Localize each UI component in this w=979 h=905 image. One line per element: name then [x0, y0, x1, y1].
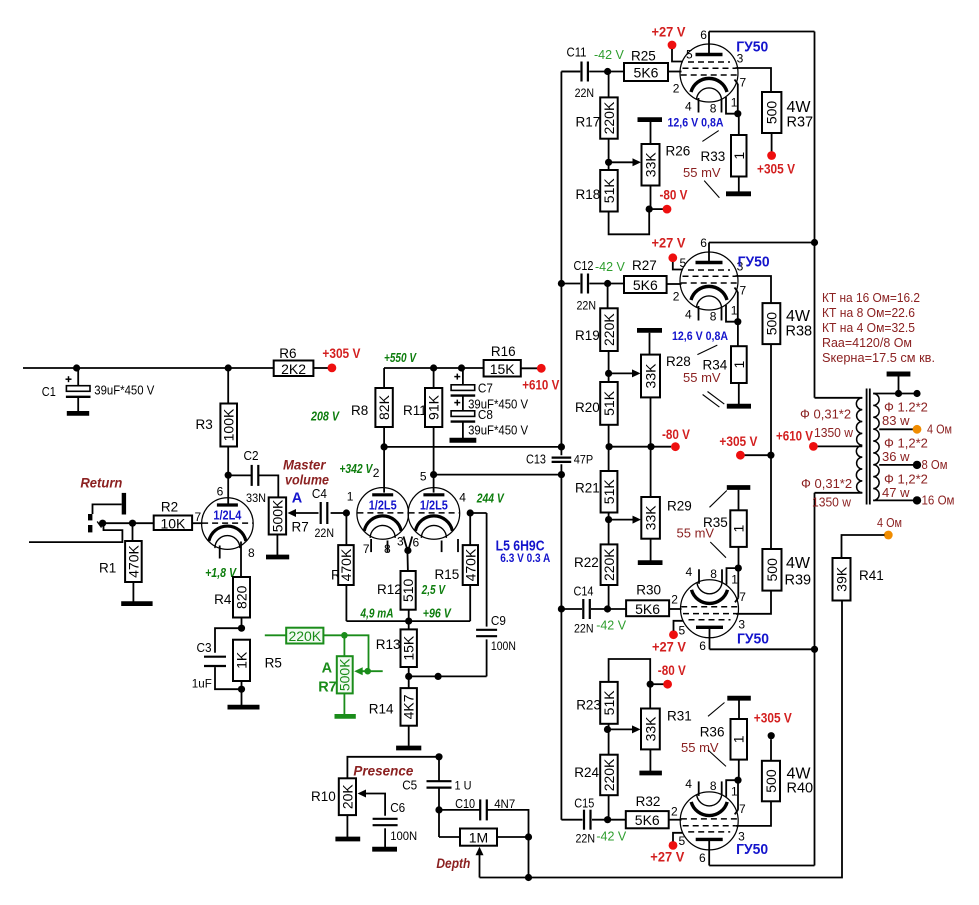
svg-text:1K: 1K	[234, 651, 250, 669]
node -80 V A	[663, 205, 672, 214]
svg-text:7: 7	[740, 76, 747, 90]
label -42 V D	[596, 830, 627, 844]
ground above R35	[727, 488, 751, 511]
label secondary gauge 2	[884, 436, 928, 451]
wire R14 to ground	[408, 726, 410, 746]
label -42 V A	[594, 48, 625, 62]
resistor R25	[624, 63, 668, 81]
svg-text:2: 2	[373, 466, 380, 480]
svg-text:-42 V: -42 V	[596, 619, 627, 633]
capacitor C10	[480, 799, 487, 820]
wire R24 to C15 row	[608, 795, 610, 820]
svg-text:4: 4	[685, 308, 692, 322]
svg-text:R16: R16	[491, 344, 516, 359]
wire pin3 D to R40	[736, 801, 771, 826]
svg-text:R24: R24	[574, 765, 599, 780]
label pin 8 V2a	[384, 542, 391, 556]
pin labels GU50 B	[673, 236, 747, 324]
svg-text:1: 1	[731, 524, 747, 532]
resistor potentiometer R29	[641, 497, 660, 539]
svg-text:820: 820	[234, 585, 250, 609]
svg-text:5: 5	[686, 48, 693, 62]
label A green	[322, 661, 333, 677]
label 22N D	[576, 832, 596, 846]
wire R4 to cathode node	[238, 618, 245, 632]
svg-text:91K: 91K	[426, 394, 442, 420]
label pin 7 V2a	[363, 542, 370, 556]
label C10	[455, 797, 475, 811]
label R11	[403, 403, 427, 418]
wire pin3 B to R38	[736, 276, 772, 303]
node +27 V D	[669, 841, 678, 850]
svg-text:-80 V: -80 V	[660, 186, 689, 202]
label C13 value 47P	[574, 452, 594, 466]
svg-text:1: 1	[731, 304, 738, 318]
jack tip tick	[97, 522, 101, 528]
svg-text:6.3 V 0.3 A: 6.3 V 0.3 A	[500, 553, 550, 565]
wire master pot to ground	[276, 535, 278, 556]
svg-text:R29: R29	[667, 498, 692, 513]
label +27 V A	[652, 24, 687, 40]
svg-text:ГУ50: ГУ50	[736, 39, 768, 56]
resistor potentiometer R7 green 500K	[337, 656, 353, 693]
resistor R38	[763, 303, 781, 344]
svg-text:3: 3	[738, 617, 745, 631]
leader line D2	[708, 750, 726, 766]
label Return	[80, 475, 122, 491]
svg-text:500: 500	[763, 312, 779, 336]
label +27 V D	[650, 848, 685, 864]
wire -80V row B	[609, 446, 671, 448]
wire V1 cathode to R4	[240, 542, 242, 578]
capacitor C6	[373, 819, 398, 825]
resistor R16	[484, 360, 521, 377]
label C3	[197, 641, 212, 655]
svg-text:5: 5	[420, 469, 427, 483]
wire R34 to ground	[738, 383, 740, 404]
wire V2a anode to bus	[381, 427, 566, 493]
label C8	[478, 408, 493, 422]
label pin 5 C	[679, 623, 686, 637]
ground under R29	[638, 560, 663, 565]
wire C9 branch	[470, 513, 486, 627]
wire R6 to +305V	[313, 367, 329, 369]
wire signal bus lower	[558, 464, 565, 820]
resistor R39	[762, 549, 781, 591]
svg-text:2K2: 2K2	[281, 361, 306, 377]
wire R29 to ground	[650, 539, 652, 561]
wiper R10	[358, 790, 386, 816]
label +305 V D	[754, 709, 793, 725]
resistor R40	[762, 761, 780, 802]
resistor potentiometer R28	[641, 355, 660, 398]
resistor potentiometer R31	[641, 709, 660, 750]
pin labels GU50 D	[671, 777, 746, 865]
wire C2 to master pot	[258, 475, 278, 497]
svg-text:1: 1	[731, 360, 747, 368]
label C9	[491, 614, 506, 628]
wire R20 to -80V row	[606, 425, 613, 451]
resistor R6	[274, 361, 314, 377]
svg-text:16 Ом: 16 Ом	[922, 493, 955, 508]
pentode GU50 C	[681, 565, 742, 638]
wire R19 lead	[607, 284, 609, 309]
wire R40 to +305V node	[770, 739, 772, 761]
capacitor C7	[451, 374, 476, 396]
label R24	[574, 765, 599, 780]
svg-text:33K: 33K	[643, 363, 659, 389]
label secondary turns 2	[882, 449, 910, 464]
ground under R1	[121, 601, 152, 606]
wire tap 8 Ohm	[879, 464, 913, 466]
wire R33 to ground	[738, 177, 740, 192]
svg-text:220K: 220K	[601, 758, 617, 791]
wire R17 lead	[608, 72, 610, 98]
svg-text:Sкерна=17.5 см кв.: Sкерна=17.5 см кв.	[822, 351, 935, 365]
wire C12 row	[561, 280, 624, 287]
wire R18 loop to -80V	[609, 209, 650, 234]
label C5	[402, 778, 417, 792]
svg-text:1350 w: 1350 w	[814, 425, 854, 440]
svg-text:R23: R23	[576, 698, 601, 713]
label pin 1 V2a	[347, 489, 354, 503]
svg-text:7: 7	[363, 542, 370, 556]
svg-text:5K6: 5K6	[635, 812, 660, 828]
svg-text:+342 V: +342 V	[339, 461, 373, 476]
wire tap 16 Ohm	[873, 499, 913, 501]
label primary turns 1	[814, 425, 854, 440]
capacitor C11	[582, 62, 588, 82]
svg-text:C4: C4	[312, 487, 327, 501]
svg-text:+27 V: +27 V	[650, 848, 685, 864]
label C11	[567, 46, 587, 60]
ground under R14	[396, 746, 421, 751]
resistor R22	[601, 544, 618, 585]
wire C5 top lead	[438, 757, 440, 781]
label +342 V	[339, 461, 373, 476]
pentode GU50 D	[680, 777, 741, 850]
label R32	[636, 794, 661, 809]
label C14	[574, 585, 594, 599]
label KT line 2	[822, 306, 915, 320]
label GU50 B	[738, 254, 770, 271]
wiper green pot	[354, 667, 383, 675]
label 4 Ohm	[927, 422, 952, 437]
svg-text:5: 5	[680, 256, 687, 270]
svg-text:C12: C12	[574, 259, 594, 273]
svg-text:+305 V: +305 V	[322, 345, 361, 361]
svg-text:500: 500	[763, 769, 779, 793]
label 4,9 mA	[360, 606, 394, 621]
svg-text:R14: R14	[369, 702, 394, 717]
svg-text:-80 V: -80 V	[658, 662, 687, 678]
svg-text:R26: R26	[666, 143, 691, 158]
node +610 V center tap	[809, 442, 818, 451]
resistor R17	[600, 97, 618, 138]
label R5	[265, 655, 282, 670]
svg-text:8: 8	[248, 546, 255, 560]
svg-text:R12: R12	[377, 582, 402, 597]
svg-text:+27 V: +27 V	[652, 235, 687, 251]
wire R3 to V1 anode	[225, 447, 232, 505]
svg-text:4W: 4W	[786, 555, 811, 572]
resistor R18	[600, 170, 618, 212]
capacitor C1	[66, 368, 91, 411]
label 4W R39	[785, 555, 812, 589]
resistor R24	[600, 755, 618, 796]
svg-text:2: 2	[671, 804, 678, 818]
svg-text:1/2L5: 1/2L5	[420, 497, 448, 512]
svg-text:5K6: 5K6	[633, 277, 658, 293]
svg-text:-42 V: -42 V	[595, 260, 626, 274]
ground under C6	[372, 847, 397, 852]
svg-text:1350 w: 1350 w	[812, 495, 852, 510]
svg-text:22N: 22N	[576, 832, 596, 846]
capacitor C9	[476, 630, 497, 636]
svg-text:Ф 0,31*2: Ф 0,31*2	[801, 476, 852, 491]
svg-text:2: 2	[673, 82, 680, 96]
svg-text:51K: 51K	[601, 690, 617, 716]
label R4	[214, 592, 232, 607]
svg-text:R38: R38	[786, 324, 813, 340]
wire V2 cathodes junction	[404, 537, 413, 572]
svg-text:1uF: 1uF	[192, 676, 212, 690]
jack sleeve contact	[122, 493, 126, 515]
svg-text:-80 V: -80 V	[662, 426, 691, 442]
label -80 V A	[660, 186, 689, 202]
svg-text:R5: R5	[265, 655, 282, 670]
label secondary gauge 3	[884, 472, 928, 487]
resistor R2	[154, 515, 192, 531]
svg-text:C13: C13	[526, 452, 546, 466]
label R10	[311, 789, 336, 804]
label pin 5 V2b	[420, 469, 427, 483]
svg-text:500K: 500K	[269, 499, 285, 532]
label C7	[478, 382, 493, 396]
wire +27V to pin5 C	[674, 621, 684, 631]
svg-text:1: 1	[731, 96, 738, 110]
svg-text:ГУ50: ГУ50	[738, 254, 770, 271]
capacitor C14	[583, 599, 590, 619]
transformer core	[867, 389, 870, 505]
wire C10 right lead	[487, 810, 532, 881]
svg-text:R1: R1	[99, 561, 116, 576]
wire secondary top to ground	[873, 377, 920, 398]
leader line D1	[708, 703, 725, 717]
label C2 value 33N	[246, 491, 266, 505]
wire C7 top lead	[462, 368, 464, 385]
ground under master pot	[266, 555, 289, 560]
svg-text:3: 3	[397, 535, 404, 549]
svg-text:КТ на 16 Ом=16.2: КТ на 16 Ом=16.2	[822, 291, 920, 305]
svg-text:33N: 33N	[246, 491, 266, 505]
svg-text:244 V: 244 V	[476, 491, 505, 506]
resistor R32	[626, 811, 669, 828]
svg-text:R21: R21	[575, 481, 600, 496]
svg-text:10K: 10K	[160, 515, 186, 531]
svg-text:1: 1	[347, 489, 354, 503]
resistor R13	[401, 629, 417, 667]
svg-text:R7: R7	[318, 679, 337, 695]
label secondary turns 3	[882, 485, 910, 500]
svg-text:C6: C6	[390, 801, 405, 815]
wire R8 top lead	[383, 368, 385, 388]
label R29	[667, 498, 692, 513]
label R2	[161, 500, 178, 515]
wire C15 row	[561, 816, 625, 823]
svg-text:R22: R22	[574, 555, 599, 570]
label C1	[42, 385, 56, 399]
svg-text:5K6: 5K6	[634, 65, 659, 81]
wire R34 top lead	[737, 325, 739, 347]
capacitor C2	[252, 465, 259, 486]
label 22N A	[575, 86, 595, 100]
label R14	[369, 702, 394, 717]
svg-text:39K: 39K	[834, 566, 850, 592]
label +305 V A	[757, 161, 796, 177]
ground above R36	[727, 698, 751, 719]
svg-text:R3: R3	[196, 417, 213, 432]
node 4 Ohm tap	[913, 425, 922, 434]
wire C2 left lead	[228, 474, 252, 476]
wire R3 top lead	[227, 368, 229, 404]
svg-text:R31: R31	[667, 708, 692, 723]
wire C11 row	[561, 68, 624, 75]
svg-text:6: 6	[699, 639, 706, 653]
resistor R3	[220, 404, 237, 447]
label R22	[574, 555, 599, 570]
ground under C1	[67, 411, 89, 416]
label R34	[703, 357, 728, 372]
wire jack link	[93, 504, 122, 514]
label C8 value	[468, 424, 529, 438]
label C2	[244, 449, 259, 463]
capacitor C8	[451, 400, 476, 422]
label C5 value 1U	[455, 779, 472, 793]
wire R21-R22 junction	[605, 513, 612, 545]
svg-text:51K: 51K	[601, 390, 617, 416]
ground under R31	[639, 771, 662, 776]
svg-text:R2: R2	[161, 500, 178, 515]
capacitor C4	[321, 502, 328, 524]
svg-text:R39: R39	[785, 573, 812, 589]
wire pin6 B	[709, 243, 815, 263]
leader line C2	[710, 542, 726, 558]
node +305 V D	[768, 732, 775, 739]
svg-text:47P: 47P	[574, 452, 594, 466]
label C4	[312, 487, 327, 501]
label 244 V	[476, 491, 505, 506]
leader line A2	[704, 181, 719, 198]
wire R35 to pin1 node C	[738, 547, 740, 568]
svg-text:1: 1	[731, 152, 747, 160]
svg-text:208 V: 208 V	[310, 409, 340, 424]
label 16 Ohm	[922, 493, 955, 508]
pentode GU50 B	[680, 252, 741, 325]
svg-text:47 w: 47 w	[882, 485, 910, 500]
label Depth	[436, 855, 470, 871]
resistor R23	[600, 682, 618, 724]
svg-text:55 mV: 55 mV	[681, 740, 719, 755]
label R35	[703, 515, 728, 530]
svg-text:1M: 1M	[469, 830, 488, 846]
wire pin3 A to R37	[736, 68, 772, 92]
wire cathode rail	[346, 585, 470, 625]
svg-text:C9: C9	[491, 614, 506, 628]
svg-text:33K: 33K	[643, 152, 659, 178]
ground green	[335, 714, 356, 719]
wire R5 to ground	[238, 681, 245, 705]
svg-text:6: 6	[699, 851, 706, 865]
wiper master volume pot	[288, 509, 319, 517]
label pin 6 V2b	[413, 536, 420, 550]
node -80 V B	[671, 442, 680, 451]
svg-text:4: 4	[685, 100, 692, 114]
label -42 V B	[595, 260, 626, 274]
label 22N C	[574, 622, 594, 636]
svg-text:22N: 22N	[574, 622, 594, 636]
label R3	[196, 417, 213, 432]
wire presence row	[347, 753, 442, 778]
label 55 mV A	[683, 165, 721, 180]
svg-text:4 Ом: 4 Ом	[877, 515, 902, 530]
svg-text:500: 500	[764, 101, 780, 125]
label primary wire gauge 2	[801, 476, 852, 491]
ground above R28	[637, 330, 662, 354]
wire green to pot	[323, 632, 368, 671]
label pin 5 A	[686, 48, 693, 62]
svg-text:R17: R17	[576, 115, 601, 130]
resistor R19	[600, 308, 618, 351]
label +550 V	[384, 350, 417, 365]
wire feedback row	[480, 601, 843, 878]
capacitor C15	[584, 810, 591, 830]
resistor R20	[600, 382, 618, 425]
svg-text:4 Ом: 4 Ом	[927, 422, 952, 437]
label 22N B	[577, 299, 597, 313]
label pin 5 B	[680, 256, 687, 270]
resistor R1	[125, 541, 142, 582]
svg-text:5: 5	[679, 834, 686, 848]
node +610 V supply	[537, 364, 546, 373]
svg-text:R18: R18	[576, 187, 601, 202]
svg-text:R32: R32	[636, 794, 661, 809]
label Master volume	[283, 457, 329, 488]
wire R17-R18 junction	[605, 139, 612, 170]
wire R1 to ground	[132, 582, 134, 602]
label R6	[279, 346, 296, 361]
svg-text:A: A	[322, 661, 333, 677]
label +27 V C	[652, 638, 687, 654]
svg-text:ГУ50: ГУ50	[736, 841, 768, 858]
svg-text:КТ на 4 Ом=32.5: КТ на 4 Ом=32.5	[822, 321, 915, 335]
label GU50 A	[736, 39, 768, 56]
svg-text:22N: 22N	[315, 526, 335, 540]
svg-text:+550 V: +550 V	[384, 350, 417, 365]
label secondary gauge 1	[884, 400, 928, 415]
svg-text:+27 V: +27 V	[652, 24, 687, 40]
svg-text:C1: C1	[42, 385, 56, 399]
resistor R8	[375, 388, 392, 427]
node +27 V A	[668, 41, 677, 50]
V2b filament pins	[442, 539, 458, 552]
resistor R36	[731, 719, 748, 760]
label R9	[331, 568, 348, 583]
svg-text:R37: R37	[787, 115, 814, 131]
jack tip contact	[88, 514, 93, 532]
wire pin6 A loop	[709, 32, 818, 398]
resistor R34	[731, 346, 747, 383]
